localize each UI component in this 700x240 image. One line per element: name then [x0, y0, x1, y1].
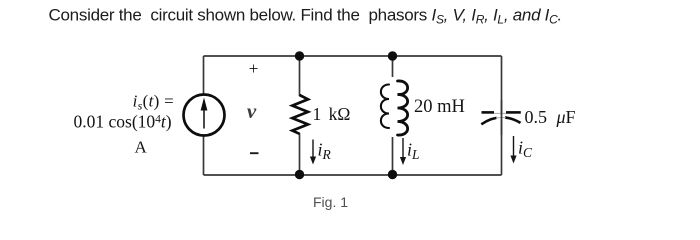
capacitor C (0.5 uF) top plate [482, 112, 521, 113]
node dot top-left [295, 51, 304, 60]
wire top [204, 55, 502, 57]
arrow iL [400, 138, 406, 165]
arrow iC [510, 136, 516, 164]
node dot top-right [388, 51, 397, 60]
wire left [203, 56, 205, 175]
svg-text:+: + [249, 59, 259, 78]
svg-text:0.01 cos(104t): 0.01 cos(104t) [74, 112, 172, 132]
capacitor C bottom plate (curved) [481, 115, 520, 125]
label minus [250, 152, 259, 154]
svg-text:v: v [247, 99, 257, 123]
inductor L left coil [381, 85, 389, 129]
wire right [501, 56, 503, 175]
wire resistor branch [299, 56, 301, 96]
svg-text:Consider the circuit shown be: Consider the circuit shown below. Find t… [49, 6, 562, 27]
svg-text:A: A [135, 138, 148, 157]
wire bottom [204, 174, 502, 176]
wire through capacitor [501, 100, 503, 135]
svg-text:1 kΩ: 1 kΩ [313, 104, 351, 124]
node dot bottom-left [295, 170, 304, 179]
arrow iR [310, 140, 316, 165]
current source U1 [184, 95, 225, 136]
inductor L (20 mH) right coil [398, 81, 408, 135]
svg-text:20 mH: 20 mH [414, 97, 465, 117]
svg-text:Fig. 1: Fig. 1 [313, 194, 348, 210]
svg-text:iL: iL [407, 140, 420, 163]
svg-text:iR: iR [318, 140, 332, 163]
resistor R (1 kOhm) [292, 95, 308, 134]
svg-text:0.5 μF: 0.5 μF [525, 107, 576, 127]
svg-text:iC: iC [518, 138, 533, 161]
node dot bottom-right [388, 170, 397, 179]
svg-text:is(t) =: is(t) = [133, 92, 174, 113]
wire inductor branch [392, 56, 394, 77]
